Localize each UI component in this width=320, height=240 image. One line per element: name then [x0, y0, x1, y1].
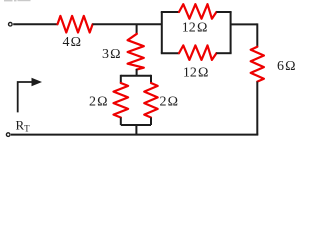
wire 12ohm bottom branch left [161, 52, 179, 54]
resistor R 2ohm left [114, 83, 129, 118]
wire 2ohm left stub top [120, 75, 122, 83]
terminal top-left [9, 22, 13, 26]
wire 12ohm top branch right [216, 11, 231, 13]
svg-text:2 Ω: 2 Ω [160, 95, 179, 110]
cropped text remnants top [4, 0, 31, 1]
wire 12ohm bottom branch right [216, 52, 231, 54]
wire bottom rail [11, 134, 258, 136]
resistor R 2ohm right [144, 83, 158, 118]
wire 3ohm to 2ohm box [136, 69, 138, 76]
resistor R 3ohm [128, 34, 144, 70]
wire 2ohm left stub bottom [120, 118, 122, 126]
resistor R 6ohm [251, 47, 264, 82]
wire 2ohm box bottom edge [121, 124, 151, 126]
arrow RT [18, 82, 33, 112]
wire 6ohm bottom stub [256, 82, 258, 135]
wire 12ohm top branch left [161, 11, 179, 13]
svg-text:4 Ω: 4 Ω [63, 35, 82, 50]
svg-text:2 Ω: 2 Ω [89, 95, 108, 110]
wire 2ohm right stub bottom [150, 118, 152, 126]
resistor R 12ohm bottom [179, 45, 216, 60]
terminal bottom-left [6, 133, 10, 137]
wire 2ohm right stub top [150, 75, 152, 83]
wire box to 6ohm branch [231, 23, 258, 25]
wire 2ohm box to bottom rail [135, 125, 137, 135]
svg-text:12 Ω: 12 Ω [182, 21, 208, 36]
resistor R 12ohm top [179, 4, 216, 19]
wire top rail left [13, 23, 57, 25]
wire 6ohm top stub [256, 23, 258, 46]
wire top rail right [93, 23, 162, 25]
node junction 3ohm stub [136, 24, 138, 34]
wire 2ohm box top edge [121, 75, 151, 77]
arrowhead RT [32, 78, 43, 87]
svg-text:12 Ω: 12 Ω [183, 65, 209, 80]
wire 12ohm box right edge [230, 12, 232, 53]
svg-text:6 Ω: 6 Ω [277, 59, 296, 74]
wire 12ohm box left edge [161, 12, 163, 53]
svg-text:3 Ω: 3 Ω [102, 47, 121, 62]
resistor R 4ohm [58, 16, 93, 33]
